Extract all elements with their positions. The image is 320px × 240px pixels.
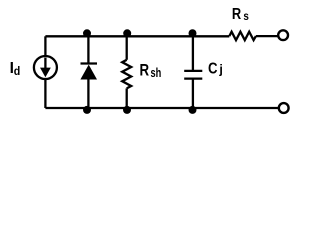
junction dot bottom diode node: [83, 106, 91, 114]
label Rsh: [140, 61, 162, 80]
svg-text:R: R: [232, 6, 242, 23]
diode D1: [80, 64, 97, 80]
wire capacitor branch vertical: [192, 36, 194, 108]
wire left vertical (current source branch): [44, 36, 46, 108]
terminal bottom output: [279, 103, 289, 113]
svg-text:R: R: [140, 61, 150, 80]
junction dot bottom Cj node: [189, 106, 197, 114]
svg-text:j: j: [218, 63, 222, 77]
wire top horizontal left section: [45, 35, 229, 37]
svg-text:s: s: [243, 9, 249, 23]
svg-text:d: d: [14, 64, 21, 78]
terminal top output: [278, 30, 288, 40]
wire bottom horizontal: [45, 107, 278, 109]
junction dot top diode node: [83, 29, 91, 37]
svg-text:sh: sh: [151, 65, 162, 80]
label Id: [10, 60, 21, 78]
junction dot top Rsh node: [123, 29, 131, 37]
junction dot bottom Rsh node: [123, 106, 131, 114]
current source I1: [34, 56, 57, 79]
junction dot top Cj node: [189, 29, 197, 37]
resistor Rs: [229, 32, 256, 40]
label Rs: [232, 6, 249, 23]
wire diode branch vertical: [87, 36, 89, 108]
capacitor Cj: [184, 71, 202, 79]
wire top horizontal right section: [256, 35, 278, 37]
wire Rsh branch vertical: [126, 36, 128, 108]
label Cj: [208, 61, 223, 78]
resistor Rsh: [122, 60, 131, 89]
svg-text:C: C: [208, 61, 218, 78]
